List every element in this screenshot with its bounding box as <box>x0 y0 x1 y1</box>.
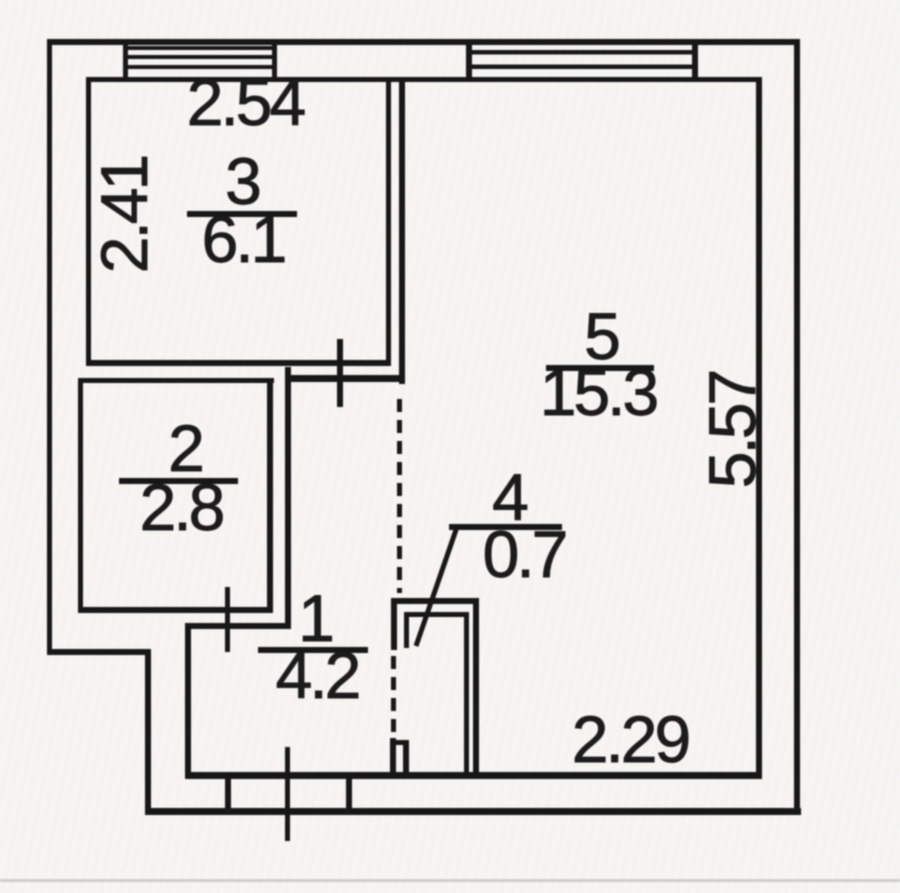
svg-text:5.57: 5.57 <box>695 371 769 488</box>
svg-text:2.54: 2.54 <box>187 65 305 139</box>
svg-text:2.29: 2.29 <box>572 702 689 776</box>
svg-text:2.41: 2.41 <box>87 156 161 273</box>
